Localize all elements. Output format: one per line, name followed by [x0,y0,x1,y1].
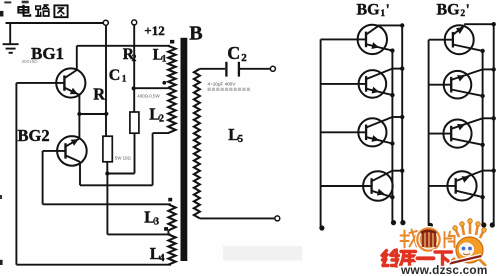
svg-text:1: 1 [162,55,167,65]
svg-text:www.dzsc.com: www.dzsc.com [400,263,488,276]
svg-text:BG2: BG2 [18,126,50,145]
svg-text:C: C [227,43,240,63]
svg-text:4: 4 [160,253,165,264]
svg-text:2: 2 [132,54,137,64]
svg-text:B: B [189,23,202,45]
svg-text:+12: +12 [144,23,164,38]
svg-text:BG: BG [357,1,381,18]
svg-text:R: R [93,85,106,104]
svg-text:2: 2 [241,52,247,64]
svg-text:3: 3 [154,216,159,227]
svg-text:2: 2 [159,114,164,125]
svg-text:1: 1 [122,75,127,85]
svg-text:5: 5 [238,134,243,145]
svg-text:': ' [386,2,390,18]
svg-text:5W 10Ω: 5W 10Ω [115,156,132,161]
svg-text:C: C [109,67,121,84]
svg-text:': ' [466,2,470,18]
svg-text:BG: BG [437,1,461,18]
svg-text:400Ω-0.5W: 400Ω-0.5W [137,93,160,98]
svg-text:4~10μF 400V: 4~10μF 400V [208,81,237,86]
svg-text:30015D: 30015D [22,59,39,64]
